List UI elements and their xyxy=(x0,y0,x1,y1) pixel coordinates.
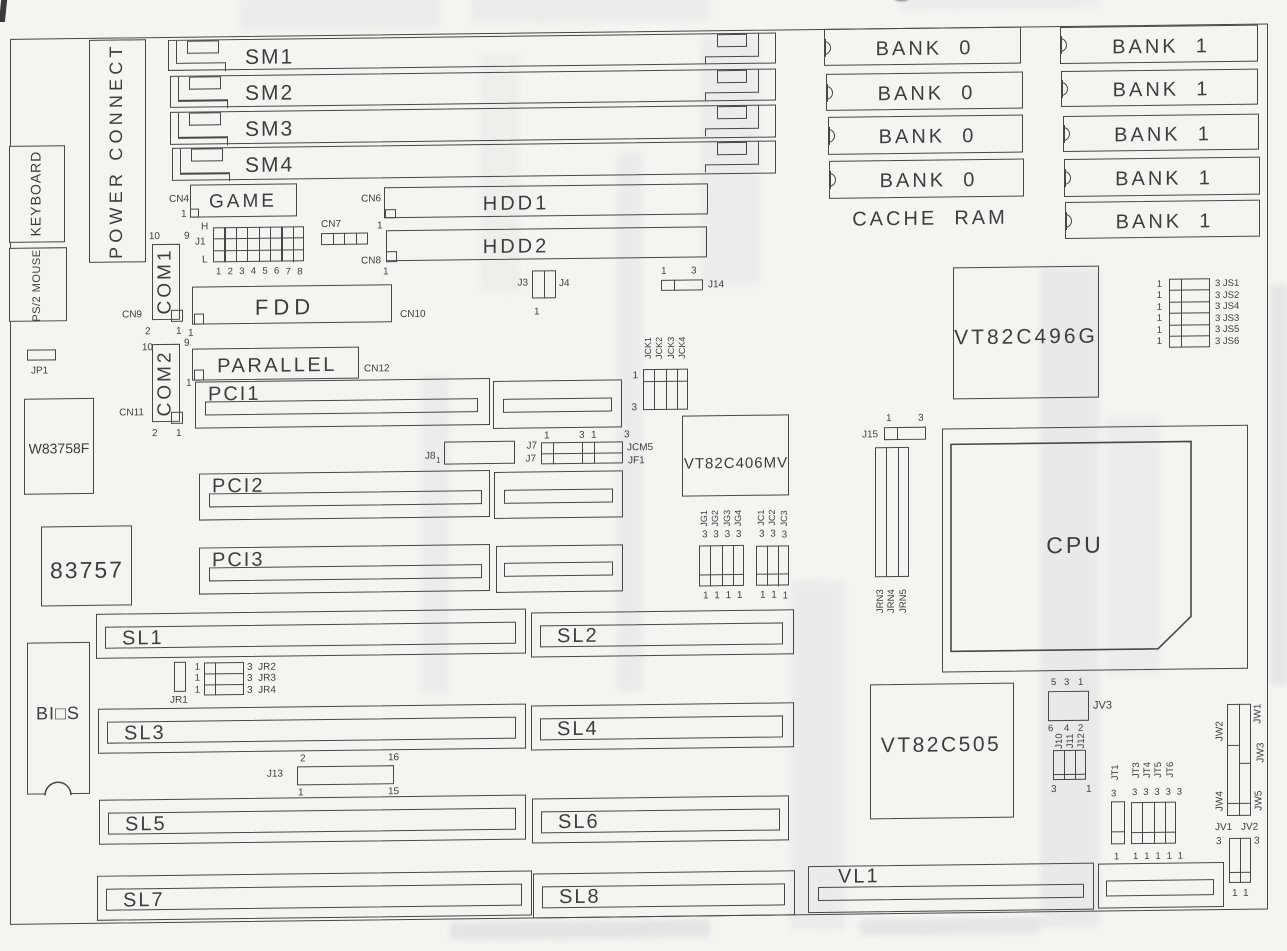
SL5 slot xyxy=(99,795,526,845)
SIMM socket SM2 xyxy=(170,69,776,108)
chip VT82C406MV xyxy=(682,415,789,497)
keyboard connector xyxy=(9,145,65,243)
jumper block JS1-JS6 xyxy=(1169,278,1210,348)
jumper block JV1 JV2 xyxy=(1215,822,1232,833)
cache ram BANK&nbsp; 0 xyxy=(828,115,1023,155)
VL1 slot xyxy=(808,863,1094,913)
SL8 slot xyxy=(533,870,795,918)
jumper block JR2 JR3 JR4 xyxy=(204,662,244,695)
ps/2 mouse connector xyxy=(9,247,67,322)
scan artifacts xyxy=(0,0,7,22)
SL3 slot xyxy=(98,704,526,754)
cache ram BANK&nbsp; 1 xyxy=(1061,69,1258,107)
cache ram BANK&nbsp; 1 xyxy=(1060,25,1258,64)
HDD2 connector CN8 xyxy=(386,226,707,261)
chip VT82C496G xyxy=(953,265,1099,399)
chip 83757 xyxy=(41,525,132,606)
SL6 slot xyxy=(532,795,789,843)
PCI3 slot xyxy=(199,544,490,595)
cache ram BANK&nbsp; 0 xyxy=(829,159,1024,199)
FDD connector CN10 xyxy=(192,285,392,325)
PCI2 right segment xyxy=(494,470,623,519)
PCI1 slot xyxy=(195,378,490,429)
VL1 right segment xyxy=(1098,862,1224,909)
cache ram BANK&nbsp; 0 xyxy=(826,72,1023,111)
jumper JT1 xyxy=(1111,764,1121,780)
CPU socket outer xyxy=(942,424,1248,672)
connector J8 xyxy=(444,441,515,465)
jumper block J1 xyxy=(201,221,208,232)
SIMM socket SM3 xyxy=(170,105,776,145)
cache ram BANK&nbsp; 1 xyxy=(1065,200,1260,239)
header J13 xyxy=(297,765,394,785)
jumper JR1 xyxy=(174,662,186,692)
BIOS chip xyxy=(27,642,90,795)
jumper block JW1-JW5 xyxy=(1227,704,1251,816)
resistor networks JRN3 JRN4 JRN5 xyxy=(875,447,909,577)
power connector xyxy=(89,39,146,263)
CPU socket inner xyxy=(950,440,1192,652)
jumper block JCK1-JCK4 xyxy=(644,337,654,359)
COM1 connector CN9 xyxy=(152,244,180,320)
jumper block JT3-JT6 xyxy=(1132,762,1142,778)
chip VT82C505 xyxy=(870,682,1014,819)
jumper J3 J4 xyxy=(532,270,556,298)
CACHE RAM label xyxy=(852,207,1008,231)
chip W83758F xyxy=(24,398,94,495)
PCI3 right segment xyxy=(496,544,623,593)
jumper J14 xyxy=(661,280,703,292)
SIMM socket SM1 xyxy=(168,33,776,71)
SL1 slot xyxy=(96,609,526,659)
jumper block J10 J11 J12 xyxy=(1055,733,1065,748)
jumper block JG1-JG4 xyxy=(700,510,710,527)
jumper block J7 JCM5 JF1 xyxy=(541,441,623,464)
PCI2 slot xyxy=(199,470,490,521)
cache ram BANK&nbsp; 1 xyxy=(1064,157,1260,197)
SIMM socket SM4 xyxy=(172,141,776,181)
jumper JV3 xyxy=(1048,690,1089,721)
SL4 slot xyxy=(531,702,794,750)
jumper JP1 xyxy=(27,350,56,361)
cache ram BANK&nbsp; 1 xyxy=(1063,114,1259,152)
SL2 slot xyxy=(531,609,794,657)
jumper block JC1-JC3 xyxy=(757,510,767,526)
header CN7 xyxy=(321,219,341,230)
COM2 connector CN11 xyxy=(152,344,180,422)
jumper J15 xyxy=(884,426,926,440)
HDD1 connector CN6 xyxy=(384,183,708,218)
SL7 slot xyxy=(97,871,532,921)
cache ram BANK&nbsp; 0 xyxy=(824,27,1021,66)
PCI1 right segment xyxy=(493,379,622,429)
PARALLEL connector CN12 xyxy=(192,347,359,381)
GAME connector CN4 xyxy=(190,184,297,218)
